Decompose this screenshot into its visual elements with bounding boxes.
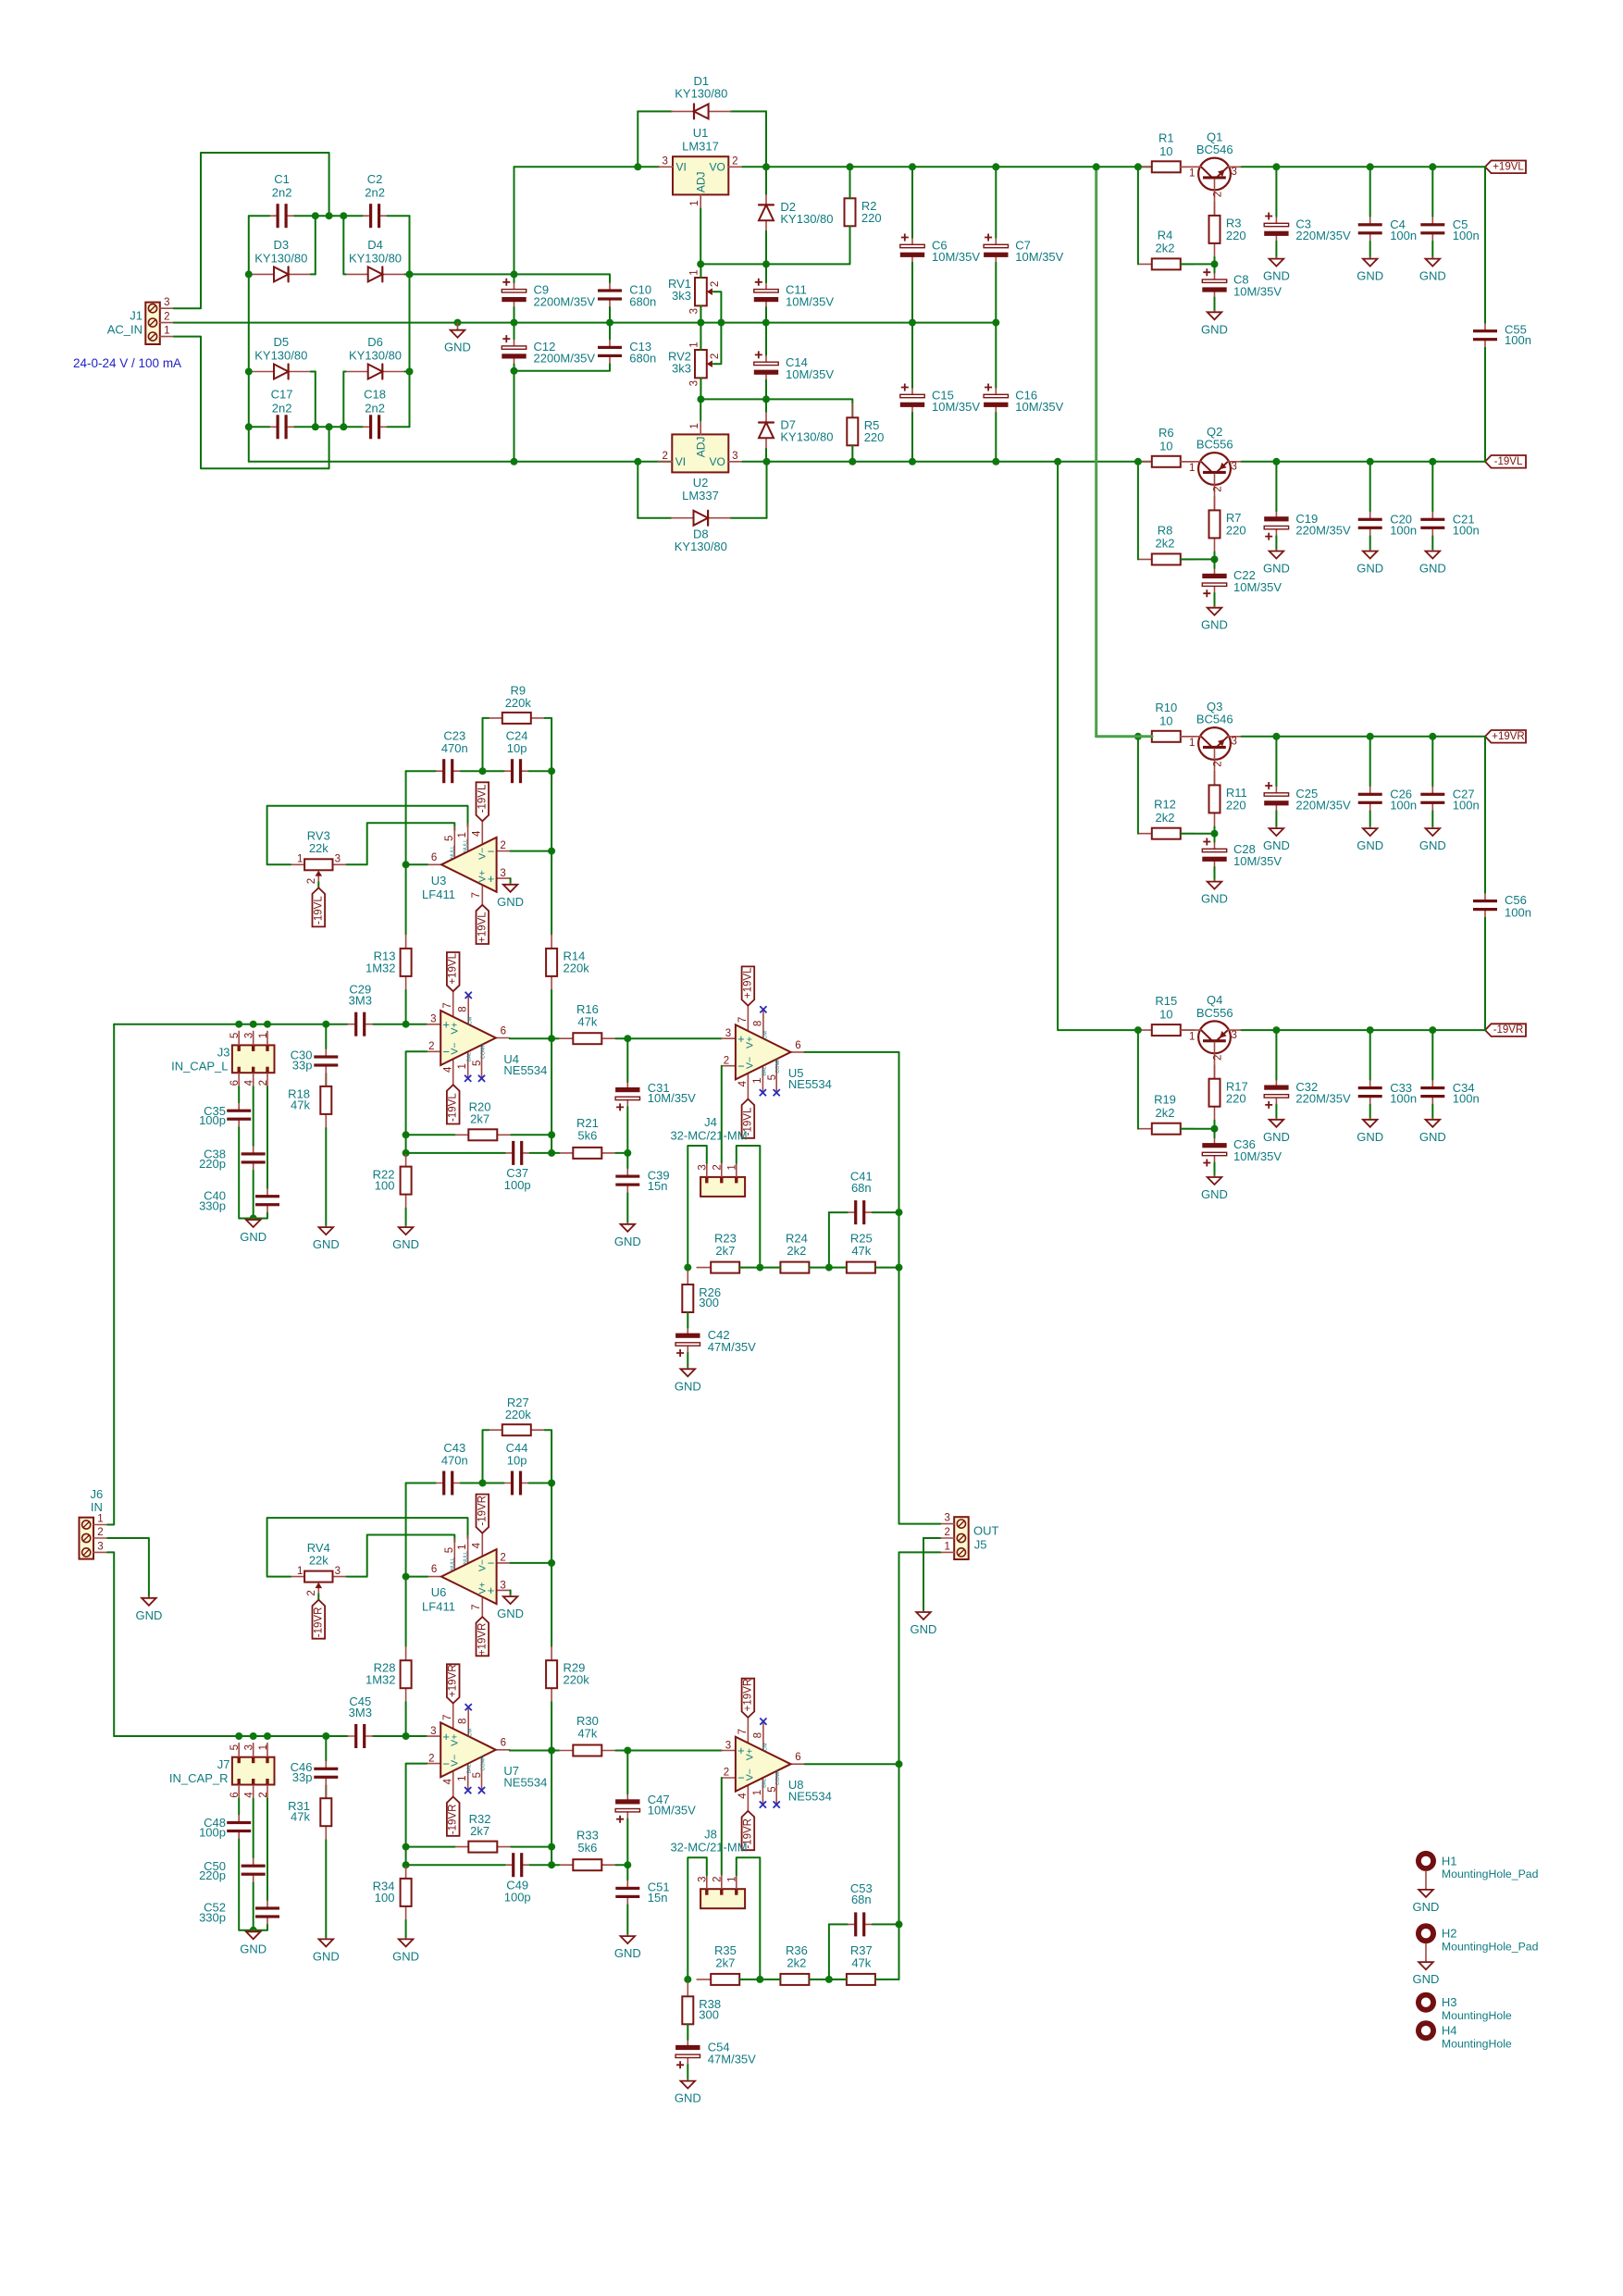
svg-text:VO: VO xyxy=(709,455,725,468)
wire C1 left lead xyxy=(249,215,269,217)
wire C22 leads xyxy=(1214,559,1216,568)
ground at J5 pin2 xyxy=(911,1611,937,1637)
svg-text:220: 220 xyxy=(861,211,882,225)
svg-text:300: 300 xyxy=(699,2007,719,2021)
svg-text:V−: V− xyxy=(744,1769,755,1781)
svg-text:47k: 47k xyxy=(577,1014,597,1028)
junction at (522,1602) xyxy=(479,1480,487,1487)
junction at (596,1602) xyxy=(548,1480,555,1487)
svg-text:2n2: 2n2 xyxy=(272,401,292,415)
wire R16 to U5 xyxy=(615,1037,722,1039)
junction at (689,499) xyxy=(634,458,641,465)
svg-text:10M/35V: 10M/35V xyxy=(1233,1149,1282,1163)
transistor Q3 BC546 xyxy=(1181,727,1242,785)
svg-text:2n2: 2n2 xyxy=(272,186,292,200)
wire R22 to ground xyxy=(405,1209,407,1226)
junction at (596,1226) xyxy=(548,1131,555,1138)
connector J8 xyxy=(698,1875,746,1908)
svg-text:6: 6 xyxy=(501,1025,506,1036)
junction at (1230,180) xyxy=(1134,163,1142,170)
svg-text:COMP: COMP xyxy=(775,1058,781,1074)
svg-text:D1: D1 xyxy=(693,74,709,88)
svg-text:J5: J5 xyxy=(974,1537,987,1551)
svg-text:V−: V− xyxy=(477,848,489,860)
ground below C26 xyxy=(1357,827,1383,853)
svg-text:GND: GND xyxy=(240,1230,266,1244)
ground below C54 xyxy=(675,2079,701,2105)
wire C36 leads xyxy=(1214,1129,1216,1138)
svg-text:7: 7 xyxy=(737,1729,749,1734)
junction at (289,1876) xyxy=(264,1732,271,1740)
wire RV1 wiper to 0V xyxy=(713,292,721,322)
svg-text:2k7: 2k7 xyxy=(470,1824,489,1838)
svg-text:3: 3 xyxy=(662,156,667,168)
svg-text:3: 3 xyxy=(725,1028,731,1039)
svg-text:2: 2 xyxy=(500,840,505,851)
svg-text:V−: V− xyxy=(477,1559,489,1571)
svg-text:GND: GND xyxy=(392,1237,419,1251)
svg-text:NULL: NULL xyxy=(450,846,455,859)
svg-text:V+: V+ xyxy=(450,1734,461,1746)
svg-text:D5: D5 xyxy=(273,335,289,349)
junction at (678,1892) xyxy=(624,1747,631,1755)
connector J7 xyxy=(229,1744,275,1799)
svg-text:1: 1 xyxy=(752,1077,763,1083)
resistor R5 xyxy=(847,403,858,459)
svg-text:8: 8 xyxy=(752,1021,763,1026)
power flag +19VR xyxy=(1485,730,1526,743)
wire C19 leads xyxy=(1275,462,1277,512)
ground below R22 xyxy=(392,1226,419,1252)
svg-text:J1: J1 xyxy=(130,309,142,323)
junction at (289,1107) xyxy=(264,1021,271,1028)
wire C40 leads xyxy=(266,1086,268,1188)
wire U5 output xyxy=(805,1052,899,1268)
svg-text:2200M/35V: 2200M/35V xyxy=(534,352,596,366)
svg-text:100p: 100p xyxy=(199,1113,226,1127)
wire C10 top xyxy=(514,274,611,282)
wire Q3 emitter to rail xyxy=(1242,736,1485,738)
svg-text:MountingHole: MountingHole xyxy=(1442,2037,1512,2050)
svg-text:47M/35V: 47M/35V xyxy=(708,1340,756,1354)
junction at (442,296) xyxy=(406,270,414,278)
junction at (371,233) xyxy=(340,212,347,219)
svg-text:1M32: 1M32 xyxy=(365,1673,396,1687)
wire D5 row xyxy=(249,371,252,373)
junction at (1076,349) xyxy=(992,319,999,327)
svg-text:KY130/80: KY130/80 xyxy=(349,252,402,266)
wire R17 bottom to node xyxy=(1214,1121,1216,1129)
svg-text:15n: 15n xyxy=(648,1179,668,1193)
svg-text:2: 2 xyxy=(306,1590,317,1595)
resistor R7 xyxy=(1209,496,1220,552)
wire R30 to U8 xyxy=(615,1750,722,1752)
svg-text:10M/35V: 10M/35V xyxy=(1015,250,1063,264)
wire C41 branch xyxy=(828,1212,830,1268)
svg-text:2n2: 2n2 xyxy=(365,401,385,415)
resistor R1 xyxy=(1138,161,1195,172)
svg-text:C18: C18 xyxy=(364,388,386,402)
svg-text:470n: 470n xyxy=(441,1454,468,1468)
svg-text:10: 10 xyxy=(1159,1008,1172,1022)
svg-text:1: 1 xyxy=(727,1164,738,1170)
junction at (757,349) xyxy=(697,319,704,327)
svg-text:1: 1 xyxy=(689,341,700,347)
svg-text:NE5534: NE5534 xyxy=(788,1789,832,1803)
svg-text:D8: D8 xyxy=(693,527,709,540)
transistor Q4 BC556 xyxy=(1181,1021,1242,1078)
svg-text:-19VR: -19VR xyxy=(313,1607,324,1638)
wire D5-C17 riser xyxy=(315,372,316,428)
wire U5 output to J5 pin3 xyxy=(899,1268,941,1524)
capacitor C19 xyxy=(1264,511,1288,540)
capacitor C52 xyxy=(255,1900,279,1925)
svg-text:1: 1 xyxy=(1189,168,1195,180)
resistor R28 xyxy=(401,1646,412,1702)
svg-text:COMP: COMP xyxy=(481,1043,487,1059)
junction at (1379,796) xyxy=(1272,733,1280,740)
wire RV2 pin1 from 0V rail xyxy=(700,323,701,350)
capacitor C24 xyxy=(504,759,529,783)
capacitor C22 xyxy=(1202,568,1226,597)
svg-text:33p: 33p xyxy=(292,1059,313,1073)
svg-text:GND: GND xyxy=(1201,1187,1228,1201)
wire C21 leads xyxy=(1431,462,1433,512)
capacitor C6 xyxy=(900,234,924,263)
svg-text:5k6: 5k6 xyxy=(577,1841,597,1855)
svg-text:220k: 220k xyxy=(505,696,532,710)
power flag -19VL xyxy=(1485,455,1526,468)
power flag +19VR (V+ of op-amp) xyxy=(742,1679,755,1718)
transistor Q2 BC556 xyxy=(1181,453,1242,510)
svg-text:2: 2 xyxy=(710,281,721,287)
wire C4 leads xyxy=(1369,167,1371,217)
junction at (757,431) xyxy=(697,395,704,403)
wire branch to R4 xyxy=(1137,167,1139,264)
svg-text:CM: CM xyxy=(468,1016,474,1024)
svg-text:220k: 220k xyxy=(564,1673,590,1687)
capacitor C53 xyxy=(848,1912,873,1936)
svg-text:GND: GND xyxy=(1357,562,1383,576)
svg-text:MountingHole: MountingHole xyxy=(1442,2009,1512,2022)
svg-text:GND: GND xyxy=(1201,892,1228,906)
wire U4 inverting input column xyxy=(406,1051,427,1153)
capacitor C31 xyxy=(615,1082,639,1111)
svg-text:2: 2 xyxy=(724,1768,729,1779)
svg-text:-19VR: -19VR xyxy=(448,1805,459,1835)
wire RV1 pin1 xyxy=(700,264,701,278)
resistor R34 xyxy=(401,1865,412,1920)
resistor R27 xyxy=(489,1424,545,1435)
svg-text:47k: 47k xyxy=(291,1098,310,1111)
svg-text:IN: IN xyxy=(91,1500,103,1514)
svg-text:KY130/80: KY130/80 xyxy=(780,430,833,444)
connector J5 OUT xyxy=(940,1513,968,1559)
svg-text:2: 2 xyxy=(1213,192,1224,197)
wire R11 bottom to node xyxy=(1214,826,1216,833)
svg-text:3: 3 xyxy=(430,1726,436,1737)
svg-text:J6: J6 xyxy=(91,1487,104,1501)
svg-text:2: 2 xyxy=(1213,486,1224,491)
svg-text:680n: 680n xyxy=(629,352,656,366)
svg-text:VI: VI xyxy=(675,455,686,468)
wire C23/C24 row xyxy=(406,770,436,772)
svg-text:47k: 47k xyxy=(291,1810,310,1824)
wire C27 leads xyxy=(1431,737,1433,787)
resistor R22 xyxy=(401,1153,412,1209)
wire C39 to ground xyxy=(626,1153,628,1168)
junction at (596,1246) xyxy=(548,1149,555,1157)
junction at (918,180) xyxy=(847,163,854,170)
svg-text:100n: 100n xyxy=(1453,229,1480,242)
svg-text:10M/35V: 10M/35V xyxy=(1015,400,1063,414)
junction at (341,233) xyxy=(312,212,319,219)
wire C34 leads xyxy=(1431,1030,1433,1080)
junction at (1379,499) xyxy=(1272,458,1280,465)
svg-text:BC556: BC556 xyxy=(1196,438,1233,452)
ground below C4 xyxy=(1357,257,1383,283)
svg-text:2k7: 2k7 xyxy=(715,1956,735,1970)
junction at (356,461) xyxy=(326,423,333,430)
ground below C28 xyxy=(1201,880,1228,906)
svg-text:220: 220 xyxy=(1226,523,1246,537)
svg-text:D4: D4 xyxy=(367,238,383,252)
ground below C19 xyxy=(1263,550,1290,576)
diode D2 xyxy=(759,194,774,231)
junction at (439,1107) xyxy=(403,1021,410,1028)
wire C17 leads xyxy=(249,426,269,428)
svg-text:100: 100 xyxy=(375,1179,395,1193)
svg-text:5: 5 xyxy=(767,1074,778,1080)
wire J5 pin2 to ground xyxy=(923,1537,940,1539)
svg-text:VI: VI xyxy=(676,160,687,173)
power flag -19VL (V- of op-amp) xyxy=(477,782,489,821)
junction at (678,1122) xyxy=(624,1035,631,1042)
svg-text:1: 1 xyxy=(689,423,700,428)
svg-text:100n: 100n xyxy=(1453,523,1480,537)
capacitor C27 xyxy=(1420,786,1444,811)
capacitor C15 xyxy=(900,384,924,413)
wire C10 bottom xyxy=(609,307,611,323)
svg-text:24-0-24 V / 100 mA: 24-0-24 V / 100 mA xyxy=(73,356,181,370)
capacitor C14 xyxy=(754,351,778,379)
svg-text:10M/35V: 10M/35V xyxy=(786,367,834,381)
svg-text:100n: 100n xyxy=(1505,905,1531,919)
svg-text:MountingHole_Pad: MountingHole_Pad xyxy=(1442,1868,1539,1880)
svg-text:GND: GND xyxy=(392,1949,419,1963)
capacitor C20 xyxy=(1358,511,1382,536)
wire Q1 emitter to rail xyxy=(1242,166,1485,168)
junction at (341,461) xyxy=(312,423,319,430)
svg-text:10M/35V: 10M/35V xyxy=(648,1091,696,1105)
junction at (828,431) xyxy=(762,395,770,403)
junction at (678,1246) xyxy=(624,1149,631,1157)
svg-text:3: 3 xyxy=(500,868,505,879)
svg-text:BAL: BAL xyxy=(762,1066,767,1075)
svg-text:2k2: 2k2 xyxy=(787,1244,806,1258)
junction at (269,296) xyxy=(245,270,253,278)
ground below C25 xyxy=(1263,827,1290,853)
junction at (1548,180) xyxy=(1429,163,1436,170)
ground below C22 xyxy=(1201,606,1228,632)
wire U3 inverting input xyxy=(511,850,552,852)
junction at (659,349) xyxy=(606,319,613,327)
power flag -19VR (V- of op-amp) xyxy=(447,1797,460,1836)
wire C50 leads xyxy=(253,1799,254,1858)
svg-text:2k2: 2k2 xyxy=(1156,1106,1175,1120)
wire RV3 wiper xyxy=(317,882,319,887)
junction at (972,1370) xyxy=(896,1264,903,1272)
resistor R14 xyxy=(546,935,557,990)
svg-text:220M/35V: 220M/35V xyxy=(1295,523,1351,537)
svg-text:V+: V+ xyxy=(744,1036,755,1049)
wire R34 to ground xyxy=(405,1920,407,1938)
junction at (556,349) xyxy=(511,319,518,327)
svg-text:3: 3 xyxy=(430,1014,436,1025)
svg-text:BAL: BAL xyxy=(467,1764,473,1773)
resistor R29 xyxy=(546,1646,557,1702)
svg-text:3: 3 xyxy=(1231,167,1236,178)
svg-text:MountingHole_Pad: MountingHole_Pad xyxy=(1442,1940,1539,1953)
junction at (596,1689) xyxy=(548,1559,555,1567)
svg-text:3: 3 xyxy=(164,297,169,308)
wire D6 left riser xyxy=(343,372,345,428)
power flag -19VR at RV4 xyxy=(313,1600,326,1639)
junction at (1379,180) xyxy=(1272,163,1280,170)
wire C12 bottom to -raw rail xyxy=(514,371,515,462)
svg-text:R4: R4 xyxy=(1158,228,1173,242)
junction at (352,1876) xyxy=(322,1732,329,1740)
svg-text:GND: GND xyxy=(614,1946,641,1960)
resistor R38 xyxy=(682,1982,693,2038)
svg-text:15n: 15n xyxy=(648,1891,668,1905)
ground below C20 xyxy=(1357,550,1383,576)
svg-text:GND: GND xyxy=(1419,562,1446,576)
junction at (828,285) xyxy=(762,260,770,267)
svg-text:KY130/80: KY130/80 xyxy=(349,349,402,363)
junction at (779,349) xyxy=(717,319,725,327)
capacitor C35 xyxy=(227,1102,251,1127)
wire C9 leads xyxy=(514,274,515,282)
power flag -19VR (V- of op-amp) xyxy=(742,1811,755,1850)
wire RV4 pin3 to op-amp pin5 xyxy=(347,1535,455,1577)
svg-text:5: 5 xyxy=(472,1061,483,1066)
svg-text:1: 1 xyxy=(297,854,303,865)
wire R28 bottom xyxy=(405,1702,407,1736)
capacitor C47 xyxy=(615,1793,639,1822)
svg-text:CM: CM xyxy=(468,1729,474,1737)
svg-text:R1: R1 xyxy=(1158,130,1174,144)
svg-text:V−: V− xyxy=(744,1057,755,1069)
svg-text:V−: V− xyxy=(450,1755,461,1767)
svg-text:2: 2 xyxy=(1213,761,1224,766)
capacitor C33 xyxy=(1358,1080,1382,1105)
junction at (274,1107) xyxy=(250,1021,257,1028)
wire U7 inverting input column xyxy=(406,1764,427,1866)
resistor R26 xyxy=(682,1271,693,1326)
resistor R16 xyxy=(559,1033,615,1044)
wire J4 pin1 xyxy=(737,1146,761,1268)
wire C47 leads xyxy=(626,1751,628,1794)
junction at (1481,796) xyxy=(1367,733,1374,740)
svg-text:220: 220 xyxy=(1226,798,1246,812)
capacitor C43 xyxy=(436,1471,461,1496)
svg-text:U1: U1 xyxy=(693,126,709,140)
wire C37 leads xyxy=(406,1152,505,1154)
svg-text:1: 1 xyxy=(727,1876,738,1881)
svg-text:33p: 33p xyxy=(292,1770,313,1784)
svg-text:10p: 10p xyxy=(507,1454,527,1468)
capacitor C42 xyxy=(675,1328,700,1357)
resistor R33 xyxy=(559,1859,615,1870)
wire C26 leads xyxy=(1369,737,1371,787)
svg-text:−: − xyxy=(488,844,495,858)
svg-text:1: 1 xyxy=(97,1514,103,1525)
svg-text:R8: R8 xyxy=(1158,523,1173,537)
svg-text:10M/35V: 10M/35V xyxy=(1233,285,1282,299)
junction at (439,2015) xyxy=(403,1861,410,1868)
svg-text:GND: GND xyxy=(313,1237,340,1251)
svg-text:LF411: LF411 xyxy=(422,1599,455,1613)
svg-text:4: 4 xyxy=(737,1080,749,1086)
svg-text:1: 1 xyxy=(457,1063,468,1069)
junction at (1312,901) xyxy=(1211,830,1219,838)
trimmer RV1 3k3 xyxy=(695,265,718,319)
resistor R10 xyxy=(1138,731,1195,742)
svg-text:GND: GND xyxy=(135,1608,162,1622)
wire C33 leads xyxy=(1369,1030,1371,1080)
trimmer RV3 22k xyxy=(291,859,346,882)
svg-text:R6: R6 xyxy=(1158,426,1174,440)
svg-text:47k: 47k xyxy=(851,1244,871,1258)
power flag -19VR xyxy=(1485,1024,1526,1036)
wire C46 leads xyxy=(325,1736,327,1760)
ground below C34 xyxy=(1419,1118,1446,1144)
svg-text:10: 10 xyxy=(1159,144,1172,158)
svg-text:GND: GND xyxy=(313,1949,340,1963)
wire C53 leads xyxy=(829,1923,848,1925)
ground below C32 xyxy=(1263,1118,1290,1144)
svg-text:3: 3 xyxy=(944,1513,949,1524)
svg-text:100n: 100n xyxy=(1453,798,1480,812)
junction at (821,2139) xyxy=(756,1976,763,1983)
svg-text:32-MC/21-MM: 32-MC/21-MM xyxy=(670,1841,747,1855)
svg-text:GND: GND xyxy=(1413,1972,1440,1986)
ground at U3 pin3 xyxy=(510,878,512,883)
junction at (1076,499) xyxy=(992,458,999,465)
wire C18 right lead xyxy=(388,426,410,428)
svg-text:1: 1 xyxy=(164,326,169,337)
trimmer RV2 3k3 xyxy=(695,337,718,391)
junction at (596,1996) xyxy=(548,1843,555,1851)
ground below C48 C50 C52 xyxy=(240,1930,266,1956)
wire C38 leads xyxy=(253,1086,254,1146)
svg-text:3: 3 xyxy=(500,1580,505,1591)
wire D8 left leg xyxy=(637,462,638,518)
resistor R35 xyxy=(697,1974,753,1985)
junction at (596,1122) xyxy=(548,1035,555,1042)
svg-text:KY130/80: KY130/80 xyxy=(780,212,833,226)
svg-text:100: 100 xyxy=(375,1891,395,1905)
power flag +19VL xyxy=(1485,161,1526,174)
svg-text:1: 1 xyxy=(457,1775,468,1781)
capacitor C51 xyxy=(615,1880,639,1905)
svg-text:-19VL: -19VL xyxy=(448,1093,459,1122)
wire U2 ADJ up xyxy=(700,399,701,420)
svg-text:GND: GND xyxy=(911,1622,937,1636)
capacitor C50 xyxy=(242,1857,266,1882)
svg-text:GND: GND xyxy=(1263,838,1290,852)
